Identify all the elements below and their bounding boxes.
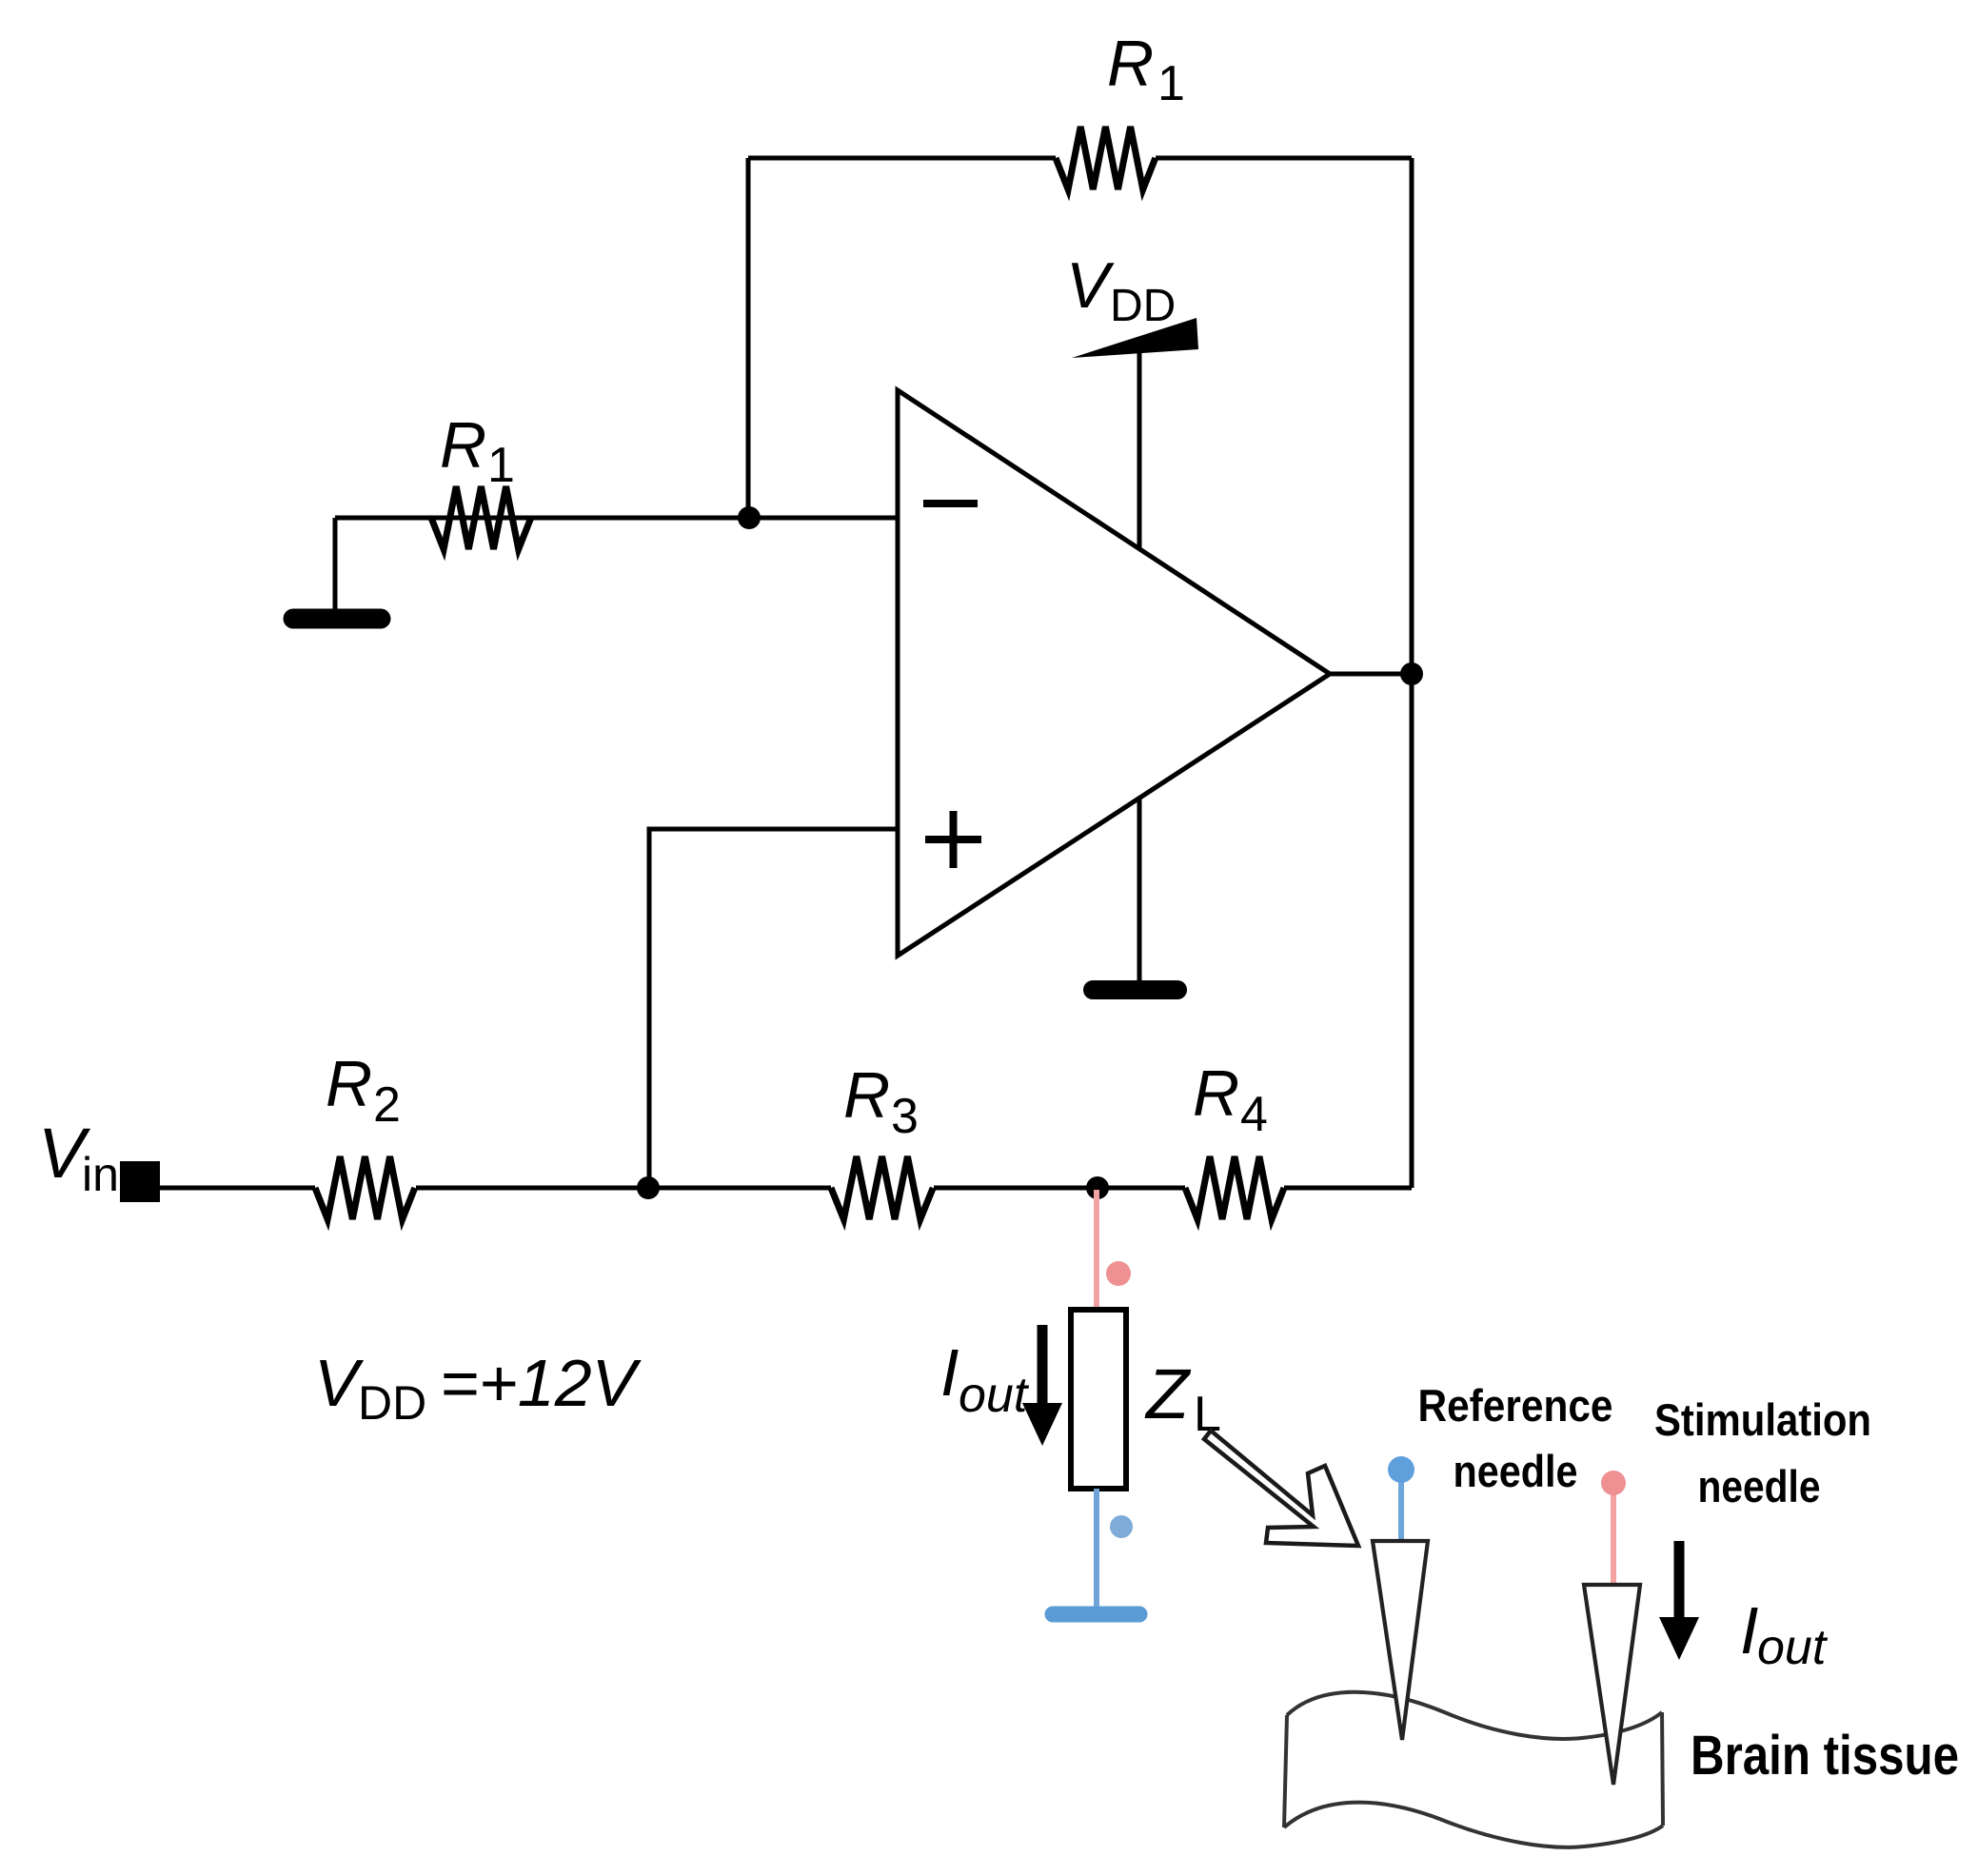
wire feedback top (748, 156, 1412, 161)
svg-text:Z: Z (1144, 1354, 1192, 1433)
node blue dot (1110, 1515, 1133, 1538)
svg-text:Reference: Reference (1418, 1380, 1613, 1431)
brain tissue band (1284, 1692, 1663, 1847)
svg-text:4: 4 (1240, 1087, 1268, 1142)
svg-text:DD: DD (1110, 281, 1176, 331)
node load junction (1086, 1176, 1109, 1199)
arrow Iout right (1674, 1541, 1685, 1621)
wire pink needle stem (1611, 1492, 1616, 1586)
wire output stub (1330, 672, 1412, 677)
svg-text:DD: DD (358, 1376, 426, 1430)
svg-text:Stimulation: Stimulation (1654, 1394, 1871, 1445)
wire plus input (649, 829, 898, 1188)
svg-text:I: I (1740, 1593, 1758, 1668)
resistor R4 zigzag (1185, 1156, 1284, 1219)
node red dot (1106, 1261, 1131, 1286)
power flag VDD (1072, 318, 1198, 358)
svg-text:needle: needle (1698, 1461, 1821, 1511)
svg-text:R: R (843, 1059, 890, 1132)
svg-text:needle: needle (1454, 1446, 1578, 1496)
svg-text:V: V (1066, 249, 1115, 322)
stimulation needle (1584, 1585, 1640, 1785)
wire op-amp ground stub (1137, 798, 1142, 981)
node plus junction (637, 1176, 660, 1199)
svg-text:out: out (959, 1368, 1030, 1423)
resistor R3 zigzag (831, 1156, 933, 1219)
reference needle (1373, 1541, 1428, 1740)
wire blue needle stem (1398, 1477, 1404, 1542)
wire output right vertical (1410, 158, 1414, 1188)
svg-text:R: R (1107, 28, 1154, 100)
ground left (293, 609, 381, 629)
op-amp U1 (898, 390, 1330, 956)
node pink needle dot (1601, 1471, 1626, 1495)
terminal Vin square (120, 1161, 160, 1202)
node output (1400, 662, 1423, 685)
arrow block hollow (1204, 1431, 1358, 1546)
wire feedback left vertical (746, 158, 751, 518)
svg-text:=+12V: =+12V (440, 1346, 643, 1420)
wire ground stub left (333, 518, 338, 609)
ground op-amp (1093, 980, 1177, 999)
node blue needle dot (1388, 1456, 1414, 1483)
node minus junction (738, 506, 761, 529)
svg-text:out: out (1757, 1620, 1829, 1675)
wire red stimulation lead (1094, 1190, 1099, 1310)
resistor R1 top zigzag (1056, 127, 1156, 189)
svg-text:1: 1 (1157, 56, 1185, 111)
wire blue reference lead (1094, 1489, 1099, 1607)
svg-text:3: 3 (891, 1089, 919, 1144)
wire VDD to op-amp (1137, 350, 1142, 547)
resistor R2 zigzag (315, 1156, 415, 1219)
plus sign (925, 811, 981, 868)
svg-text:I: I (940, 1335, 959, 1410)
ground blue reference (1053, 1607, 1139, 1623)
svg-text:R: R (1193, 1057, 1239, 1130)
load ZL rectangle (1071, 1310, 1126, 1489)
arrow Iout left (1038, 1325, 1048, 1407)
svg-text:in: in (82, 1148, 119, 1201)
resistor R1 left zigzag (431, 486, 531, 549)
svg-text:1: 1 (487, 438, 515, 493)
wire bottom rail (160, 1186, 1412, 1191)
wire minus input (335, 516, 898, 521)
svg-text:R: R (440, 409, 486, 482)
svg-text:R: R (326, 1048, 372, 1120)
minus sign (923, 500, 978, 507)
svg-text:Brain tissue: Brain tissue (1691, 1725, 1959, 1787)
svg-text:2: 2 (373, 1077, 401, 1133)
